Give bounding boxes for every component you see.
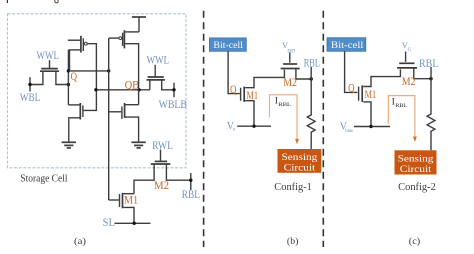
svg-text:SL: SL bbox=[103, 215, 115, 229]
svg-text:Config-1: Config-1 bbox=[274, 182, 312, 193]
svg-text:(b): (b) bbox=[287, 236, 299, 247]
svg-text:WWL: WWL bbox=[147, 52, 170, 66]
svg-text:WBL: WBL bbox=[20, 90, 40, 104]
svg-text:Q: Q bbox=[348, 81, 355, 95]
svg-text:WWL: WWL bbox=[37, 48, 60, 62]
svg-text:Sensing: Sensing bbox=[282, 153, 318, 163]
svg-text:RBL: RBL bbox=[419, 57, 439, 70]
svg-text:M2: M2 bbox=[402, 74, 416, 88]
svg-text:(c): (c) bbox=[409, 236, 421, 247]
svg-text:s: s bbox=[233, 127, 235, 133]
svg-text:bias: bias bbox=[345, 129, 353, 134]
svg-text:G: G bbox=[408, 48, 412, 53]
svg-text:M2: M2 bbox=[154, 178, 169, 192]
svg-text:RWL: RWL bbox=[152, 138, 173, 152]
svg-text:M1: M1 bbox=[365, 87, 377, 101]
svg-text:M1: M1 bbox=[247, 88, 259, 102]
svg-text:M1: M1 bbox=[124, 193, 138, 207]
svg-text:Storage Cell: Storage Cell bbox=[20, 173, 67, 185]
svg-text:Sensing: Sensing bbox=[398, 154, 434, 164]
svg-text:Q: Q bbox=[230, 82, 237, 96]
svg-text:RBL: RBL bbox=[182, 188, 200, 201]
svg-text:RBL: RBL bbox=[395, 103, 407, 109]
svg-text:Bit-cell: Bit-cell bbox=[213, 40, 243, 51]
svg-text:RBL: RBL bbox=[278, 102, 291, 108]
svg-text:M2: M2 bbox=[283, 75, 297, 89]
svg-text:(a): (a) bbox=[74, 236, 86, 247]
svg-text:WBLB: WBLB bbox=[159, 97, 187, 111]
svg-text:Config-2: Config-2 bbox=[398, 182, 436, 193]
svg-text:Bit-cell: Bit-cell bbox=[331, 40, 364, 51]
svg-text:Circuit: Circuit bbox=[400, 165, 432, 175]
svg-text:DD: DD bbox=[287, 48, 295, 54]
svg-text:QB: QB bbox=[125, 77, 140, 91]
svg-text:Circuit: Circuit bbox=[284, 163, 316, 173]
